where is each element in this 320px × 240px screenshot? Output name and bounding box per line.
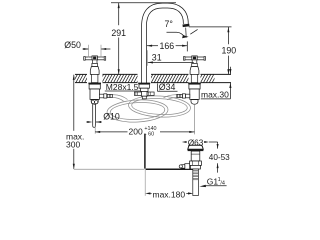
horizontal reference line max.300 base: [74, 168, 144, 170]
svg-text:Ø34: Ø34: [159, 82, 176, 92]
dimension max.180: [145, 170, 193, 200]
svg-text:40-53: 40-53: [209, 153, 230, 162]
spout high-arc tube: [144, 6, 190, 83]
dimension 7 degrees spout angle: [165, 19, 198, 39]
spout shank and tee below deck: [134, 83, 154, 99]
left valve with cross handle: [84, 56, 113, 104]
dimension max.300 supply height: [66, 75, 84, 169]
label M28x1.5 spout shank thread: [105, 82, 141, 92]
flexible connection hoses: [106, 94, 191, 123]
dimension 200 +140/-60 valve spacing: [95, 125, 195, 138]
label max.30 deck thickness: [201, 67, 232, 100]
dimension 40-53 mounting thickness: [209, 144, 230, 173]
dimension O63 flange: [182, 138, 218, 147]
svg-text:max.30: max.30: [201, 90, 229, 100]
svg-text:300: 300: [66, 139, 80, 149]
svg-text:166: 166: [159, 41, 174, 51]
countertop deck with section hatching: [73, 74, 231, 82]
dimension 166 spout reach: [147, 41, 187, 51]
svg-text:Ø50: Ø50: [64, 40, 81, 50]
dimension O50 handle: [64, 40, 110, 57]
svg-text:M28x1.5: M28x1.5: [106, 82, 139, 92]
svg-text:291: 291: [111, 28, 126, 38]
svg-text:190: 190: [221, 46, 236, 56]
label G1 1/4 thread: [199, 177, 226, 188]
dimension 31: [147, 50, 193, 66]
svg-text:- 60: - 60: [145, 132, 154, 138]
svg-text:Ø10: Ø10: [103, 112, 120, 122]
label O34 hole diameter: [157, 82, 177, 92]
svg-text:Ø63: Ø63: [188, 138, 204, 147]
dimension 291 height: [111, 3, 176, 75]
svg-text:31: 31: [152, 53, 162, 63]
drain pop-up waste assembly: [179, 145, 203, 195]
svg-text:7°: 7°: [165, 19, 173, 29]
extension line below right valve: [194, 104, 196, 134]
dimension 190 outlet height: [189, 27, 236, 75]
dimension O10 pipe: [86, 112, 120, 123]
waste pipe reference thick lines: [144, 134, 193, 170]
svg-text:200: 200: [129, 127, 143, 137]
supply pipe below left valve: [93, 104, 96, 127]
right valve with cross handle: [177, 56, 206, 104]
svg-text:max.180: max.180: [153, 189, 186, 199]
